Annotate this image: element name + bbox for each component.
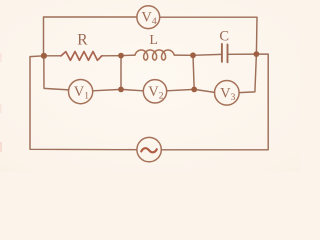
- wire capacitor to node D: [228, 53, 256, 55]
- svg-text:L: L: [149, 33, 158, 48]
- wire V-line left drop to V1: [44, 56, 69, 90]
- node C dot: [190, 52, 196, 58]
- wire main line node A to resistor: [44, 55, 61, 57]
- wire V4 right to right junction: [160, 17, 257, 54]
- node F dot: [191, 87, 197, 93]
- voltmeter U4 circle: [137, 6, 160, 29]
- wire V2 to node F: [167, 89, 195, 90]
- capacitor C left plate: [221, 44, 223, 62]
- voltmeter U1 circle: [69, 80, 93, 104]
- scan artifact left edge marks: [0, 53, 2, 62]
- wire inductor to node C: [174, 54, 193, 56]
- inductor L coil: [135, 50, 174, 60]
- capacitor C right plate: [227, 45, 229, 63]
- node A dot: [41, 53, 47, 59]
- wire V1 to node E: [93, 89, 121, 90]
- svg-text:R: R: [77, 31, 88, 48]
- wire node F to V3: [194, 89, 214, 92]
- wire node E to V2: [121, 89, 143, 90]
- ac source circle: [137, 137, 161, 161]
- wire node B to inductor: [121, 54, 135, 57]
- node D dot: [254, 51, 260, 57]
- wire vertical connector node C to node F: [193, 55, 194, 89]
- ac source tilde: [141, 148, 157, 152]
- wire vertical connector node B to node E: [120, 56, 122, 90]
- voltmeter U2 circle: [143, 80, 166, 103]
- resistor R zigzag: [61, 52, 102, 61]
- wire top loop left to V4: [44, 17, 137, 56]
- wire bottom right from source up to junction: [161, 54, 268, 150]
- wire node C to capacitor: [193, 53, 221, 56]
- voltmeter U3 circle: [215, 81, 240, 106]
- wire left outer branch to bottom: [30, 56, 137, 150]
- node B dot: [118, 53, 124, 59]
- wire V3 right up to node D: [239, 54, 256, 93]
- wire resistor to node B: [102, 55, 121, 57]
- node E dot: [118, 87, 124, 93]
- svg-text:C: C: [219, 28, 229, 44]
